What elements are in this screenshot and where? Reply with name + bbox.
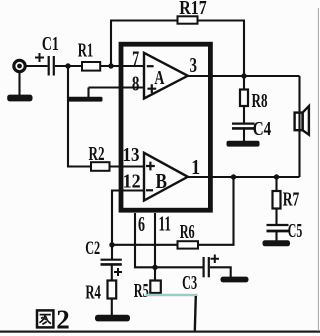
svg-text:R8: R8 (252, 91, 268, 112)
wire C1 to input node (55, 65, 82, 67)
capacitor C4 (232, 119, 271, 140)
svg-text:C2: C2 (85, 238, 100, 259)
svg-text:13: 13 (123, 144, 140, 166)
wire R7 to C5 (275, 209, 277, 225)
capacitor C1 (35, 34, 59, 76)
wire R1 to pin 7 (100, 65, 144, 67)
wire output B (188, 176, 300, 178)
node (pin 6/11 junction) (152, 265, 157, 270)
svg-text:C3: C3 (182, 273, 197, 294)
wire riser to R17 (110, 21, 112, 67)
svg-text:C5: C5 (288, 221, 303, 242)
caption 图 2 (37, 305, 70, 335)
node (output A) (241, 73, 246, 78)
svg-text:8: 8 (132, 72, 140, 96)
ground (C3) (221, 277, 249, 283)
wire R6 to C2 node (112, 244, 178, 246)
artifact (right edge shadow) (317, 8, 319, 331)
wire R17 drop to output node (243, 21, 245, 77)
capacitor C3 (182, 255, 219, 295)
svg-text:A: A (154, 67, 164, 89)
wire jack to C1 (26, 65, 48, 67)
ground (C4) (227, 129, 260, 147)
node (R6 branch) (231, 174, 236, 179)
svg-text:7: 7 (132, 47, 139, 71)
wire pin 6 (135, 213, 155, 267)
capacitor C5 (267, 221, 303, 242)
wire pin 11 (154, 213, 156, 281)
node (R7 branch) (274, 174, 279, 179)
bottom rule (0, 331, 320, 333)
resistor R1 (78, 41, 100, 71)
IC box U1 (121, 44, 210, 210)
wire R2 to pin 13 (110, 165, 145, 167)
speaker LS (295, 106, 309, 135)
node (R17 feedback tap) (108, 63, 113, 68)
wire node to C3 (155, 266, 203, 268)
op-amp B (144, 153, 188, 201)
leader line below C3 (195, 296, 196, 331)
capacitor C2 (85, 238, 122, 276)
wire output A to speaker column (188, 75, 300, 77)
wire C3 to ground (210, 267, 231, 277)
artifact (teal underline) (146, 294, 198, 296)
wire top left of R17 (110, 19, 178, 21)
svg-text:R4: R4 (85, 282, 101, 303)
svg-text:1: 1 (191, 155, 200, 179)
ground (input jack) (7, 72, 32, 102)
svg-text:C1: C1 (42, 34, 59, 55)
node (input junction) (65, 63, 70, 68)
ground (pin 8) (68, 88, 103, 102)
resistor R4 (85, 281, 116, 304)
svg-text:R6: R6 (180, 222, 195, 243)
resistor R17 (178, 0, 207, 24)
resistor R2 (89, 144, 110, 171)
op-amp A (144, 53, 188, 99)
svg-text:3: 3 (189, 53, 197, 77)
svg-text:C4: C4 (253, 119, 272, 140)
svg-text:B: B (155, 169, 167, 193)
svg-text:12: 12 (123, 171, 141, 193)
node (C2 / R6 junction) (109, 242, 114, 247)
resistor R8 (240, 76, 268, 112)
resistor R7 (273, 177, 300, 211)
svg-text:2: 2 (56, 305, 70, 335)
svg-text:6: 6 (138, 212, 145, 236)
svg-text:R5: R5 (134, 281, 149, 302)
ground (C5) (263, 231, 291, 246)
wire speaker column (298, 76, 300, 177)
input jack (14, 60, 25, 71)
svg-text:R2: R2 (89, 144, 105, 165)
resistor R6 (178, 222, 199, 249)
wire R6 branch drop (198, 177, 234, 245)
wire R8 to C4 (243, 106, 245, 123)
wire input node down to R2 (68, 66, 91, 167)
ground (R4) (95, 315, 130, 322)
wire C2 to R4 (111, 264, 113, 280)
svg-text:R7: R7 (283, 190, 300, 211)
resistor R5 (134, 281, 161, 303)
wire top right of R17 (198, 19, 246, 21)
wire pin 12 feedback (112, 191, 144, 260)
wire pin 8 to ground (89, 86, 145, 88)
svg-text:R17: R17 (179, 0, 207, 19)
svg-text:R1: R1 (78, 41, 94, 62)
wire R4 to ground (111, 299, 113, 316)
svg-text:11: 11 (159, 212, 172, 236)
